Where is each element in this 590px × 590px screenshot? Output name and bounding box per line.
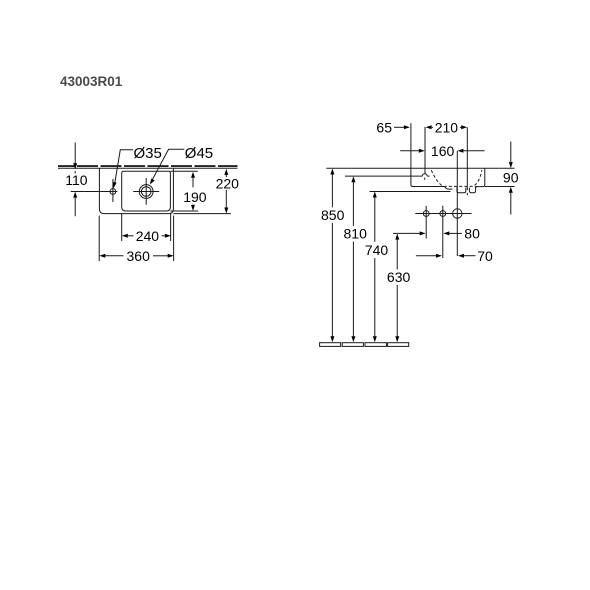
floor hatch strip 4: [388, 343, 409, 347]
svg-text:70: 70: [477, 248, 493, 264]
front view: basin right edge and bottom right: [475, 168, 485, 186]
dimension 240 line with arrows: [122, 234, 128, 238]
floor hatch strip 3: [365, 343, 386, 347]
dimension 190 vertical line with arrows: [191, 172, 195, 178]
dimension 240 extension lines: [121, 213, 123, 241]
front view: siphon step hook: [445, 187, 453, 190]
front view: bowl hidden dashed profile: [431, 170, 482, 187]
front view: tap platform line left part with 810 extension: [345, 175, 422, 177]
plan view: wall hatch dashes: [58, 165, 238, 167]
floor hatch strip 1: [320, 343, 341, 347]
plan view: drain centerline horizontal: [133, 191, 159, 193]
svg-text:110: 110: [65, 172, 88, 188]
svg-text:810: 810: [344, 226, 368, 242]
plan view: wall solid line: [58, 167, 238, 169]
fixing hole 2 centreline vertical: [442, 206, 444, 258]
plan view: drain circle outer Ø45: [139, 185, 153, 199]
dimension 210: [426, 125, 432, 129]
dimension 360 line with arrows: [99, 254, 105, 258]
svg-text:630: 630: [387, 269, 411, 285]
front view: tap platform line right part: [427, 175, 430, 177]
plan view: tap hole centerline horizontal (also ext for dim 110): [71, 191, 118, 193]
plan view: basin outer outline 360x220: [99, 168, 173, 213]
dimension 740: [373, 192, 377, 198]
extension line tap hole up: [424, 127, 426, 174]
svg-text:240: 240: [136, 228, 160, 244]
svg-text:90: 90: [503, 170, 519, 186]
svg-text:160: 160: [431, 143, 455, 159]
front view: basin bottom extension to 90 dim: [485, 186, 515, 188]
front view: tap hole arch: [422, 174, 427, 176]
plan view: bowl inner rect 240x190: [122, 171, 171, 211]
dimension 160: [400, 150, 419, 152]
extension line overflow: [466, 127, 468, 190]
svg-text:850: 850: [321, 207, 345, 223]
svg-text:Ø35: Ø35: [134, 145, 162, 162]
fixing holes centreline horizontal: [415, 213, 471, 215]
dimension 80: [400, 232, 420, 234]
dimension 90: [510, 142, 512, 163]
dimension 70: [416, 255, 437, 257]
drain hole circle: [453, 209, 462, 218]
svg-text:740: 740: [365, 242, 389, 258]
extension line for 740 at siphon bottom: [370, 191, 451, 193]
dimension 110 vertical line with arrows: [74, 143, 76, 165]
svg-text:210: 210: [435, 120, 459, 136]
front view: tab centre tick: [466, 193, 468, 195]
svg-text:190: 190: [183, 189, 207, 205]
extension line basin left edge up: [410, 123, 412, 168]
floor hatch strip 2: [342, 343, 363, 347]
svg-text:Ø45: Ø45: [185, 145, 213, 162]
plan view: drain circle inner: [141, 187, 151, 197]
svg-text:80: 80: [464, 226, 480, 242]
plan view: tap hole circle Ø35: [110, 189, 116, 195]
leader line for Ø35: [115, 150, 133, 184]
svg-text:65: 65: [376, 120, 392, 136]
plan view: drain centerline vertical: [145, 178, 147, 205]
front view: top edge line (wall mounting level): [326, 167, 514, 169]
plan view: bowl bottom extension line: [170, 210, 198, 212]
dimension 220 vertical line with arrows: [224, 169, 228, 175]
svg-text:220: 220: [216, 176, 240, 192]
front view: basin left edge and bottom left: [411, 168, 445, 186]
extension line for 630: [393, 232, 400, 234]
fixing hole 1 circle: [423, 211, 429, 217]
fixing hole 2 circle: [440, 211, 446, 217]
dimension 810: [351, 176, 355, 182]
fixing hole 1 centreline vertical: [425, 206, 427, 239]
dimension 630: [395, 234, 399, 240]
front view: tap hole centre tick: [424, 178, 426, 180]
plan view: bowl top extension line: [170, 170, 197, 172]
plan view: basin bottom extension line to 220 dim: [173, 213, 231, 215]
svg-text:360: 360: [127, 248, 151, 264]
dimension 850: [330, 169, 334, 175]
front view: right fixing tab: [469, 187, 477, 193]
extension line drain centre: [456, 151, 458, 256]
leader line for Ø45: [151, 149, 184, 182]
plan view: tap hole centerline vertical: [112, 179, 114, 202]
front view: left fixing tab: [457, 187, 466, 192]
svg-text:43003R01: 43003R01: [60, 74, 123, 89]
dimension 360 extension lines: [98, 216, 100, 262]
